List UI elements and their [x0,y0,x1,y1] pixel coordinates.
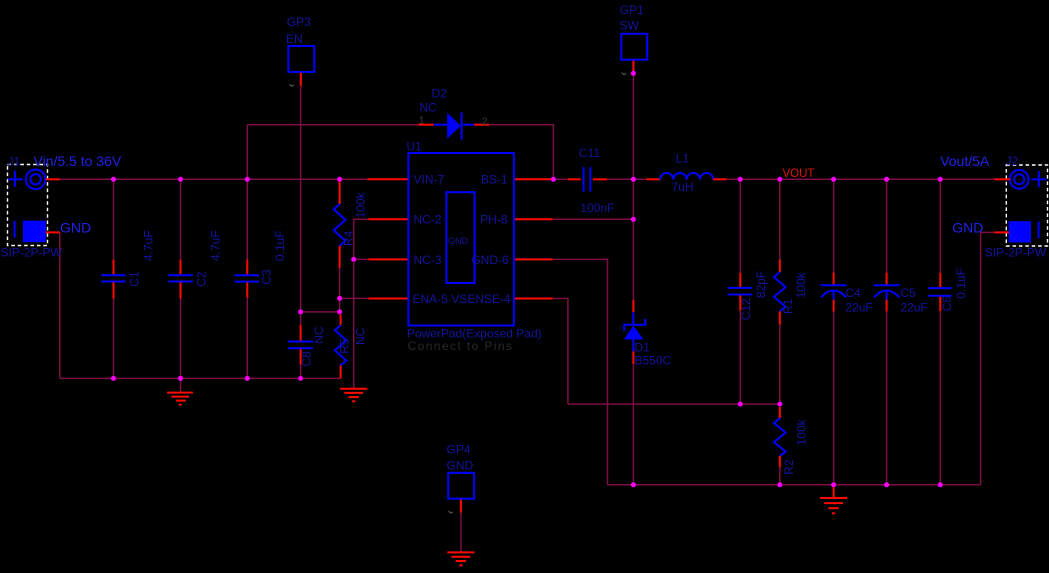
junction GND/C2 [178,376,183,381]
wire bottom-left GND rail [60,377,341,379]
svg-text:Vout/5A: Vout/5A [940,153,990,169]
junction ENA/R4 [337,296,342,301]
svg-text:0.1uF: 0.1uF [954,268,968,299]
svg-text:Connect to Pins: Connect to Pins [408,339,514,353]
pin VSENSE-4 [515,298,553,300]
svg-text:R5: R5 [338,338,352,354]
svg-text:82pF: 82pF [754,271,768,298]
junction GND/C5 [884,482,889,487]
svg-text:PH-8: PH-8 [480,213,508,227]
svg-text:SW: SW [620,18,640,32]
capacitor C8 [288,325,313,365]
junction VIN/C3 [245,177,250,182]
junction VIN/R4 [337,177,342,182]
svg-text:C1: C1 [128,271,142,287]
wire C3/D2 vertical [246,125,248,260]
svg-text:0.1uF: 0.1uF [273,230,287,261]
wire C5 bottom branch [886,312,888,485]
stub mark (GP4) [449,511,454,513]
svg-text:NC: NC [420,101,438,115]
wire VIN rail [60,178,368,180]
junction BS/D2/C11 [551,177,556,182]
junction VIN/C2 [178,177,183,182]
wire C4 bottom branch [833,312,835,485]
resistor R1 [774,260,786,325]
svg-text:EN: EN [286,32,303,46]
port GP3 [288,46,314,72]
svg-text:GP1: GP1 [620,3,644,17]
svg-text:100k: 100k [353,191,367,218]
svg-text:100k: 100k [795,418,809,445]
wire J1 GND vertical [59,232,61,378]
wire D2 anode horizontal [247,124,418,126]
junction VOUT/C6 [938,177,943,182]
ground symbol (power GND) [820,486,847,513]
junction EN/R5 [337,309,342,314]
wire C3 bottom branch [246,298,248,379]
capacitor C5 (polarized) [874,273,900,312]
wire C11 left link [553,178,568,180]
wire bottom GND rail [608,484,981,486]
svg-text:100nF: 100nF [580,201,614,215]
diode D2 [418,112,489,139]
wire C4 top branch [833,179,835,272]
wire VOUT rail [727,178,995,180]
capacitor C6 [928,273,952,311]
wire D1 anode branch [632,364,634,485]
wire C6 bottom branch [939,311,941,485]
junction FB/C12 [738,402,743,407]
wire EN vertical from GP3 [300,86,302,325]
svg-text:ENA-5: ENA-5 [413,292,449,306]
capacitor C11 [568,167,607,191]
junction GND/C3 [245,376,250,381]
wire C12 bottom branch [739,311,741,405]
junction NC-3 [351,257,356,262]
ground symbol (input GND) [167,378,193,404]
wire GP4 GND vertical [460,513,462,552]
svg-text:L1: L1 [676,151,690,165]
svg-text:J1: J1 [8,155,21,169]
junction VOUT/C12 [738,177,743,182]
svg-text:R2: R2 [782,459,796,475]
junction GND/C6 [938,482,943,487]
pin BS-1 [515,178,553,180]
svg-text:7uH: 7uH [672,180,694,194]
port GP4 [448,473,474,499]
pin NC-2 [368,218,407,220]
wire SW vertical from GP1 [632,75,634,300]
connector J1 [8,165,48,246]
svg-text:22uF: 22uF [845,300,872,314]
svg-text:GND: GND [447,459,474,473]
junction GND/D1 [631,482,636,487]
inductor L1 [647,173,727,180]
wire R1 top branch [779,179,781,259]
svg-text:C4: C4 [845,286,861,300]
svg-text:C5: C5 [900,286,916,300]
wire R2 bottom link [779,467,781,485]
junction VOUT/C5 [884,177,889,182]
svg-text:NC: NC [312,326,326,344]
capacitor C1 [101,260,125,299]
svg-text:2: 2 [482,117,488,128]
pin J2-1 [994,178,1010,180]
svg-text:GND: GND [60,220,91,236]
svg-text:NC-2: NC-2 [414,213,442,227]
svg-text:C2: C2 [195,271,209,287]
svg-text:100k: 100k [794,271,808,298]
junction PH/SW [631,217,636,222]
svg-text:GND: GND [952,220,983,236]
svg-text:C12: C12 [739,298,753,320]
svg-text:D1: D1 [635,340,651,354]
wire R4 bottom link [339,298,341,312]
wire VSENSE lead [553,299,568,405]
svg-text:4.7uF: 4.7uF [142,230,156,261]
svg-text:NC-3: NC-3 [414,253,442,267]
svg-text:VIN-7: VIN-7 [414,173,445,187]
svg-text:22uF: 22uF [900,300,927,314]
diode D1 [624,300,646,364]
connector J2 [1006,165,1047,246]
capacitor C2 [168,260,192,299]
svg-text:SIP-2P-PW: SIP-2P-PW [985,246,1047,260]
pin J2-2 [994,231,1009,233]
resistor R2 [774,407,786,467]
svg-text:D2: D2 [432,87,448,101]
svg-text:BS-1: BS-1 [481,173,508,187]
wire C5 top branch [886,179,888,272]
svg-text:GP4: GP4 [447,443,471,457]
wire GND-6 lead [553,259,608,484]
svg-text:R1: R1 [781,298,795,314]
svg-text:U1: U1 [407,140,423,154]
junction VIN/C1 [111,177,116,182]
pin J1-1 [46,178,60,180]
pin PH-8 [515,218,553,220]
junction (GP1 stub) [631,71,636,76]
svg-text:Vin/5.5 to 36V: Vin/5.5 to 36V [34,153,122,169]
resistor R4 [334,182,346,268]
capacitor C3 [235,260,259,298]
wire D2 cathode to BS [489,125,553,180]
junction VOUT/C4 [831,177,836,182]
svg-text:4.7uF: 4.7uF [209,230,223,261]
capacitor C12 [728,273,753,311]
pin GND-6 [515,258,553,260]
svg-text:B550C: B550C [635,353,672,367]
wire EN bridge [301,311,340,313]
pin J1-2 [46,231,60,233]
wire C2 bottom branch [180,299,182,379]
wire C11 to L1 link [607,178,646,180]
svg-text:VSENSE-4: VSENSE-4 [451,292,511,306]
wire J2 GND vertical [981,232,995,484]
wire C2 top branch [180,179,182,259]
resistor R5 [335,315,347,379]
svg-text:VOUT: VOUT [783,168,815,180]
junction GND/C8 [298,376,303,381]
junction GND/C4 [831,482,836,487]
svg-text:R4: R4 [342,230,356,246]
ground symbol (GP4) [447,552,474,565]
wire feedback rail [568,403,780,405]
wire C6 top branch [939,179,941,272]
wire C1 bottom branch [113,299,115,379]
junction SW/L1 [631,177,636,182]
svg-text:C6: C6 [940,296,954,312]
wire NC-3 lead [354,258,369,260]
svg-text:1: 1 [419,116,425,127]
junction GND/C1 [111,376,116,381]
svg-text:NC: NC [354,327,368,345]
svg-text:C8: C8 [300,351,314,367]
pin GP4 [460,500,462,513]
pin ENA-5 [369,298,408,300]
svg-text:C11: C11 [579,146,600,160]
wire R4 to ENA junction [339,268,341,298]
stub mark (GP3) [290,84,295,86]
svg-text:GND: GND [448,236,469,246]
pin GP3 [300,73,302,86]
wire NC-2 lead [354,219,369,388]
port GP1 [621,34,647,60]
wire C8 bottom link [300,365,302,379]
pin VIN-7 [368,178,408,180]
IC U1 [408,153,514,326]
wire R1 bottom branch [779,325,781,404]
svg-text:GP3: GP3 [287,15,311,29]
junction EN/C8 [298,309,303,314]
junction FB/R1/R2 [777,402,782,407]
wire PH-8 lead [553,218,634,220]
capacitor C4 (polarized) [821,273,847,312]
svg-text:GND-6: GND-6 [471,253,509,267]
wire ENA-5 lead [340,297,369,299]
svg-text:C3: C3 [260,269,274,285]
ground symbol (NC net) [340,389,367,402]
svg-text:SIP-2P-PW: SIP-2P-PW [1,246,63,260]
pin GP1 [632,61,634,72]
svg-text:J2: J2 [1006,154,1019,168]
junction VOUT/R1 [777,177,782,182]
stub mark (GP1) [622,73,626,75]
wire C1 top branch [113,179,115,259]
pin NC-3 [368,258,407,260]
junction GND/R2 [777,482,782,487]
wire C12 top branch [739,179,741,272]
